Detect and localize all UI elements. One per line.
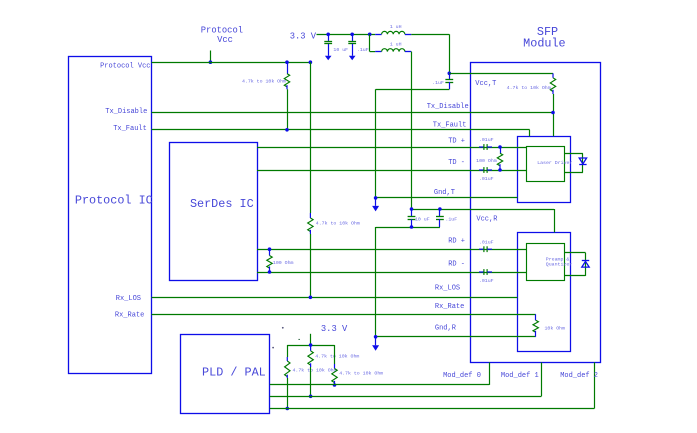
Preamp & Quantizer label bbox=[546, 256, 572, 267]
svg-text:Vcc: Vcc bbox=[217, 35, 233, 45]
net label Mod_def 0 bbox=[443, 372, 481, 380]
svg-text:Gnd,R: Gnd,R bbox=[435, 325, 457, 333]
inductor L2 1uH bbox=[375, 49, 411, 52]
resistor R1 4.7k-10k pullup bbox=[284, 62, 289, 89]
wire Mod_def0 net bbox=[270, 362, 490, 385]
capacitor C3 .1uF on Vcc,T bbox=[445, 73, 453, 89]
wire R5 to laser block bbox=[553, 94, 555, 136]
capacitor C9 .1uF on Vcc,R bbox=[436, 209, 444, 227]
speck artifact 1 bbox=[282, 327, 284, 329]
SerDes IC label bbox=[190, 197, 254, 211]
resistor R5 4.7k-10k Tx_Disable pullup bbox=[550, 73, 555, 94]
C2 value .1uF bbox=[357, 47, 369, 53]
C9 value .1uF bbox=[445, 217, 457, 223]
svg-text:.1uF: .1uF bbox=[432, 80, 444, 86]
svg-text:Mod_def 1: Mod_def 1 bbox=[501, 372, 539, 380]
wire RD- net bbox=[257, 272, 526, 274]
net label Tx_Fault (SFP) bbox=[433, 121, 467, 129]
R8 value 4.7k to 10k Ohm bbox=[315, 353, 359, 359]
net label RD- bbox=[448, 261, 465, 269]
wire Protocol Vcc stub bbox=[210, 51, 212, 63]
C6 value .01uF bbox=[479, 240, 494, 246]
3.3 V power label lower bbox=[321, 324, 348, 334]
wire laser diode loop bbox=[565, 153, 583, 172]
pin label Tx_Disable (Protocol IC) bbox=[105, 108, 147, 116]
ground below C1 bbox=[325, 44, 332, 61]
wire Mod_def2 net bbox=[270, 362, 595, 408]
svg-text:Vcc,T: Vcc,T bbox=[475, 80, 496, 88]
wire Rx_Rate net bbox=[152, 314, 536, 316]
pin label Protocol Vcc bbox=[100, 63, 150, 71]
resistor R6 10k Ohm bbox=[533, 314, 538, 337]
svg-text:Rx_LOS: Rx_LOS bbox=[435, 285, 460, 293]
capacitor C2 .1uF bbox=[348, 34, 356, 44]
node R4 top junction bbox=[268, 247, 272, 251]
resistor R4 100 Ohm RD termination bbox=[267, 249, 272, 272]
svg-text:4.7k to 10k Ohm: 4.7k to 10k Ohm bbox=[315, 353, 359, 359]
R1 value 4.7k to 10k Ohm bbox=[242, 78, 286, 84]
svg-text:4.7k to 10k Ohm: 4.7k to 10k Ohm bbox=[316, 221, 360, 227]
SerDes IC block U2 bbox=[170, 143, 258, 281]
node Protocol Vcc corner junction bbox=[309, 60, 313, 64]
wire Vcc,R net bbox=[412, 209, 555, 232]
node R4 bottom junction bbox=[268, 270, 272, 274]
svg-text:TD -: TD - bbox=[448, 159, 465, 167]
resistor R8 4.7k-10k Mod_def1 pullup bbox=[308, 345, 313, 367]
wire photodiode loop bbox=[565, 253, 586, 276]
C8 value 10 uF bbox=[415, 217, 430, 223]
R3 value 100 Ohm bbox=[476, 158, 497, 164]
node Protocol Vcc stub junction bbox=[209, 60, 213, 64]
node pullup rail junction bbox=[309, 343, 313, 347]
Laser Driver box U5 bbox=[527, 147, 565, 182]
wire R1 to Tx_Fault bbox=[287, 89, 289, 130]
inductor L1 1uH bbox=[375, 31, 411, 34]
L1 value 1 uH bbox=[390, 24, 402, 30]
node Vcc,T filter junction bbox=[448, 72, 452, 76]
wire 3.3V stub to PLD pullups bbox=[310, 334, 312, 345]
Protocol IC label bbox=[75, 193, 153, 207]
C5 value .01uF bbox=[479, 176, 494, 182]
svg-text:10k Ohm: 10k Ohm bbox=[545, 326, 566, 332]
C1 value 10 uF bbox=[333, 47, 348, 53]
wire R7 to Mod_def2 bbox=[287, 378, 289, 409]
net label Mod_def 1 bbox=[501, 372, 539, 380]
svg-text:.01uF: .01uF bbox=[479, 176, 494, 182]
svg-text:10 uF: 10 uF bbox=[415, 217, 430, 223]
node R3 bottom junction bbox=[498, 168, 502, 172]
ground Gnd,T bbox=[372, 198, 379, 212]
C4 value .01uF bbox=[479, 137, 494, 143]
R7 value 4.7k to 10k Ohm bbox=[293, 368, 337, 374]
R6 value 10k Ohm bbox=[545, 326, 566, 332]
svg-text:Protocol Vcc: Protocol Vcc bbox=[100, 63, 150, 71]
svg-text:.1uF: .1uF bbox=[445, 217, 457, 223]
node R2 / Rx_LOS junction bbox=[309, 296, 313, 300]
diode D2 photodiode bbox=[582, 261, 589, 268]
svg-text:.01uF: .01uF bbox=[479, 137, 494, 143]
svg-text:.1uF: .1uF bbox=[357, 47, 369, 53]
PLD / PAL block U3 bbox=[181, 335, 270, 414]
net label RD+ bbox=[448, 238, 465, 246]
pin label Tx_Fault (Protocol IC) bbox=[113, 125, 147, 133]
node R7 / Mod_def2 junction bbox=[286, 407, 290, 411]
wire Protocol Vcc drop to R2 bbox=[310, 62, 312, 213]
svg-text:1 uH: 1 uH bbox=[390, 41, 402, 47]
C3 value .1uF bbox=[432, 80, 444, 86]
net label Rx_Rate (SFP) bbox=[435, 303, 464, 311]
wire L1 output to Vcc,T node bbox=[411, 34, 449, 73]
wire C3 ground return to Gnd,T bbox=[376, 89, 450, 198]
svg-text:Tx_Disable: Tx_Disable bbox=[427, 103, 469, 111]
wire Mod_def1 net bbox=[270, 362, 542, 396]
svg-text:.01uF: .01uF bbox=[479, 240, 494, 246]
wire Tx_Disable net bbox=[152, 112, 554, 114]
wire Protocol Vcc rail bbox=[152, 62, 311, 64]
Preamp Quantizer box U6 bbox=[527, 244, 565, 281]
svg-text:Rx_LOS: Rx_LOS bbox=[116, 295, 141, 303]
net label TD+ bbox=[448, 138, 465, 146]
Protocol Vcc power label bbox=[201, 25, 243, 45]
svg-text:Tx_Fault: Tx_Fault bbox=[113, 125, 147, 133]
capacitor C8 10uF on Vcc,R bbox=[408, 209, 416, 227]
R5 value 4.7k to 10k Ohm bbox=[507, 85, 551, 91]
svg-text:Module: Module bbox=[523, 37, 565, 51]
speck artifact 3 bbox=[298, 339, 300, 340]
capacitor C1 10uF bbox=[324, 34, 332, 44]
wire R8 to Mod_def1 bbox=[310, 367, 312, 396]
svg-text:4.7k to 10k Ohm: 4.7k to 10k Ohm bbox=[507, 85, 551, 91]
wire R2 to Rx_LOS bbox=[310, 234, 312, 297]
node C8 junction bbox=[410, 207, 414, 211]
node C8 ground rail junction bbox=[410, 225, 414, 229]
svg-text:3.3 V: 3.3 V bbox=[321, 324, 348, 334]
node R3 top junction bbox=[498, 145, 502, 149]
wire PLD pullup rail bbox=[287, 345, 334, 347]
ground Gnd,R bbox=[372, 337, 379, 351]
wire Vcc,R cap ground rail bbox=[376, 227, 440, 337]
wire Vcc,T net bbox=[449, 73, 553, 75]
net label Tx_Disable (SFP) bbox=[427, 103, 469, 111]
Protocol IC block U1 bbox=[69, 57, 152, 374]
svg-text:.01uF: .01uF bbox=[479, 278, 494, 284]
node R8 / Mod_def1 junction bbox=[309, 395, 313, 399]
C7 value .01uF bbox=[479, 278, 494, 284]
3.3 V power label top bbox=[290, 32, 317, 42]
svg-text:4.7k to 10k Ohm: 4.7k to 10k Ohm bbox=[339, 371, 383, 377]
net label Gnd,R (SFP) bbox=[435, 325, 457, 333]
svg-text:RD -: RD - bbox=[448, 261, 465, 269]
capacitor C7 .01uF on RD- bbox=[479, 269, 492, 275]
resistor R2 4.7k-10k pullup bbox=[308, 213, 313, 234]
node R9 / Mod_def0 junction bbox=[333, 383, 337, 387]
pin label Rx_LOS (Protocol IC) bbox=[116, 295, 141, 303]
R4 value 100 Ohm bbox=[273, 260, 294, 266]
svg-text:TD +: TD + bbox=[448, 138, 465, 146]
capacitor C5 .01uF on TD- bbox=[479, 167, 492, 173]
svg-text:Mod_def 2: Mod_def 2 bbox=[560, 372, 598, 380]
SFP Module block U4 bbox=[471, 63, 601, 363]
SFP Module title bbox=[523, 25, 565, 51]
laser driver sub-block box bbox=[518, 137, 571, 203]
svg-text:Rx_Rate: Rx_Rate bbox=[435, 303, 464, 311]
svg-text:100 Ohm: 100 Ohm bbox=[273, 260, 294, 266]
svg-text:Gnd,T: Gnd,T bbox=[434, 189, 455, 197]
R9 value 4.7k to 10k Ohm bbox=[339, 371, 383, 377]
svg-text:10 uF: 10 uF bbox=[333, 47, 348, 53]
net label Gnd,T bbox=[434, 189, 455, 197]
svg-text:Protocol: Protocol bbox=[201, 25, 243, 35]
Laser Driver label bbox=[537, 160, 572, 166]
svg-text:Preamp &: Preamp & bbox=[546, 256, 570, 262]
node Protocol Vcc / R1 junction bbox=[285, 60, 289, 64]
svg-text:4.7k to 10k Ohm: 4.7k to 10k Ohm bbox=[242, 78, 286, 84]
resistor R7 4.7k-10k Mod_def2 pullup bbox=[285, 345, 290, 378]
ground below C2 bbox=[349, 44, 356, 61]
svg-text:RD +: RD + bbox=[448, 238, 465, 246]
receiver sub-block box bbox=[518, 233, 571, 352]
L2 value 1 uH bbox=[390, 41, 402, 47]
R2 value 4.7k to 10k Ohm bbox=[316, 221, 360, 227]
svg-text:Tx_Fault: Tx_Fault bbox=[433, 121, 467, 129]
net label TD- bbox=[448, 159, 465, 167]
pin label Vcc,R bbox=[476, 216, 498, 224]
resistor R3 100 Ohm TD termination bbox=[497, 147, 502, 170]
svg-text:Protocol IC: Protocol IC bbox=[75, 193, 153, 207]
resistor R9 4.7k-10k Mod_def0 pullup bbox=[332, 345, 337, 385]
svg-text:Vcc,R: Vcc,R bbox=[476, 216, 498, 224]
node Gnd,R junction bbox=[374, 335, 378, 339]
wire TD+ net bbox=[257, 147, 526, 149]
wire RD+ net bbox=[257, 249, 526, 251]
node C2 junction bbox=[350, 33, 354, 37]
svg-text:Tx_Disable: Tx_Disable bbox=[105, 108, 147, 116]
diode D1 laser diode bbox=[579, 158, 586, 165]
svg-text:Mod_def 0: Mod_def 0 bbox=[443, 372, 481, 380]
wire TD- net bbox=[257, 170, 526, 172]
svg-text:3.3 V: 3.3 V bbox=[290, 32, 317, 42]
speck artifact 2 bbox=[272, 347, 274, 349]
node C1 junction bbox=[326, 33, 330, 37]
capacitor C6 .01uF on RD+ bbox=[479, 246, 492, 252]
wire branch to L2 bbox=[370, 34, 376, 51]
svg-text:SerDes IC: SerDes IC bbox=[190, 197, 254, 211]
node C9 junction bbox=[438, 207, 442, 211]
svg-text:100 Ohm: 100 Ohm bbox=[476, 158, 497, 164]
pin label Vcc,T bbox=[475, 80, 496, 88]
capacitor C4 .01uF on TD+ bbox=[479, 144, 492, 150]
wire L2 output to Vcc,R bbox=[410, 52, 412, 209]
wire 3.3V rail bbox=[317, 34, 376, 36]
wire Gnd,T net bbox=[376, 197, 518, 199]
node R1 / Tx_Fault junction bbox=[285, 128, 289, 132]
pin label Rx_Rate (Protocol IC) bbox=[115, 311, 144, 319]
svg-text:Laser Driver: Laser Driver bbox=[537, 160, 572, 166]
PLD / PAL label bbox=[202, 365, 266, 379]
svg-text:Quantizer: Quantizer bbox=[546, 262, 572, 268]
svg-text:Rx_Rate: Rx_Rate bbox=[115, 311, 144, 319]
net label Rx_LOS (SFP) bbox=[435, 285, 460, 293]
wire Rx_LOS net bbox=[152, 297, 518, 299]
svg-text:1 uH: 1 uH bbox=[390, 24, 402, 30]
net label Mod_def 2 bbox=[560, 372, 598, 380]
node L2 branch junction bbox=[368, 33, 372, 37]
svg-text:PLD / PAL: PLD / PAL bbox=[202, 365, 266, 379]
node R5 / Tx_Disable junction bbox=[551, 111, 555, 115]
node Gnd,T junction bbox=[374, 196, 378, 200]
wire Tx_Fault net bbox=[152, 130, 530, 137]
svg-text:4.7k to 10k Ohm: 4.7k to 10k Ohm bbox=[293, 368, 337, 374]
wire Gnd,R net bbox=[376, 336, 536, 338]
